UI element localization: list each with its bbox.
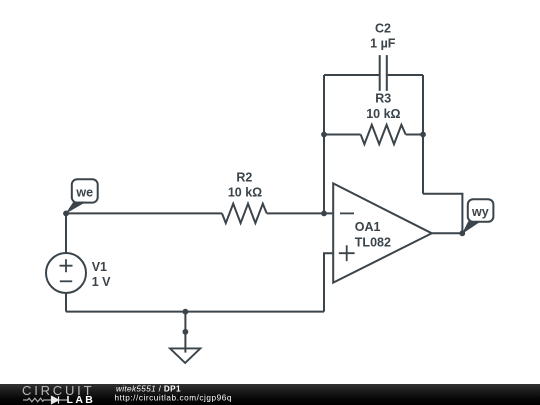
wire: R3 branch bbox=[324, 134, 423, 136]
wire: feedback to output bbox=[423, 194, 462, 234]
junction node: ground stem bbox=[183, 329, 189, 335]
wire: we node down to V1 top bbox=[65, 213, 67, 253]
flag wy bubble bbox=[468, 199, 494, 222]
junction node: we bbox=[63, 211, 69, 217]
junction node: output wy bbox=[459, 230, 465, 236]
wire: C2 top branch bbox=[324, 74, 423, 76]
svg-text:C2: C2 bbox=[375, 22, 391, 36]
svg-text:TL082: TL082 bbox=[355, 236, 391, 250]
wire: non-inverting input to bottom net bbox=[324, 253, 333, 311]
svg-text:10 kΩ: 10 kΩ bbox=[228, 185, 262, 199]
svg-text:http://circuitlab.com/cjgp96q: http://circuitlab.com/cjgp96q bbox=[115, 393, 232, 402]
junction node: R3 right bbox=[420, 132, 426, 138]
wire: feedback left vertical bbox=[323, 75, 325, 213]
svg-text:1 V: 1 V bbox=[92, 275, 111, 289]
wire: feedback right vertical bbox=[422, 75, 424, 194]
wire: bottom ground net bbox=[66, 311, 324, 313]
svg-text:1 µF: 1 µF bbox=[370, 37, 396, 51]
wire: op-amp output bbox=[432, 232, 463, 234]
svg-text:R3: R3 bbox=[375, 92, 391, 106]
logo resistor-diode line bbox=[23, 398, 67, 402]
flag wy tail bbox=[462, 221, 481, 234]
resistor R2 bbox=[222, 204, 267, 223]
ground symbol bbox=[170, 348, 200, 363]
svg-text:LAB: LAB bbox=[67, 394, 96, 405]
svg-text:OA1: OA1 bbox=[355, 220, 381, 234]
V1 minus sign bbox=[60, 280, 72, 282]
op-amp minus input sign bbox=[340, 212, 354, 214]
svg-text:R2: R2 bbox=[236, 170, 252, 184]
resistor R3 bbox=[361, 125, 406, 144]
logo diode bbox=[52, 396, 59, 403]
wire: main input net from node we to op-amp inverting input bbox=[66, 212, 333, 214]
junction node: R3 left bbox=[321, 132, 327, 138]
flag we tail bbox=[66, 202, 87, 214]
op-amp plus input sign bbox=[339, 245, 355, 261]
junction node: ground net bbox=[183, 309, 189, 315]
junction node: inverting input bbox=[321, 211, 327, 217]
voltage source V1 bbox=[46, 253, 86, 293]
op-amp OA1 triangle bbox=[333, 183, 432, 282]
svg-text:witek5551 / DP1: witek5551 / DP1 bbox=[116, 384, 181, 393]
capacitor C2 plates bbox=[380, 55, 387, 91]
svg-text:wy: wy bbox=[471, 205, 489, 219]
svg-text:10 kΩ: 10 kΩ bbox=[366, 107, 400, 121]
svg-text:V1: V1 bbox=[92, 260, 107, 274]
V1 plus sign bbox=[60, 259, 73, 272]
wire: V1 bottom to ground net bbox=[65, 293, 67, 312]
wire: ground stem bbox=[184, 312, 186, 353]
svg-text:we: we bbox=[75, 185, 93, 199]
flag we bubble bbox=[72, 179, 98, 202]
